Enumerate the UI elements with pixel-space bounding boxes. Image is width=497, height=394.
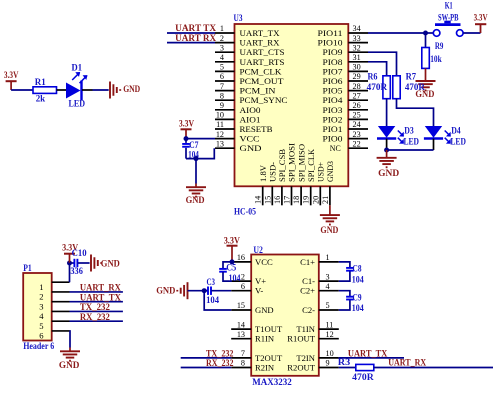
svg-text:GND3: GND3 bbox=[325, 161, 335, 182]
svg-text:4: 4 bbox=[39, 311, 44, 321]
svg-text:C7: C7 bbox=[189, 140, 199, 150]
svg-text:3: 3 bbox=[220, 43, 224, 52]
svg-text:15: 15 bbox=[263, 196, 272, 204]
svg-text:PIO4: PIO4 bbox=[323, 95, 344, 105]
svg-text:C3: C3 bbox=[207, 277, 216, 287]
svg-text:24: 24 bbox=[353, 120, 361, 129]
svg-text:GND: GND bbox=[255, 305, 274, 315]
svg-text:RX_232: RX_232 bbox=[206, 358, 234, 368]
svg-text:VCC: VCC bbox=[255, 257, 273, 267]
svg-text:K1: K1 bbox=[445, 1, 453, 11]
svg-text:12: 12 bbox=[216, 130, 224, 139]
svg-text:P1: P1 bbox=[23, 263, 32, 273]
svg-text:SPI_MOSI: SPI_MOSI bbox=[287, 143, 297, 182]
svg-text:PIO1: PIO1 bbox=[323, 124, 343, 134]
svg-text:470R: 470R bbox=[352, 372, 374, 382]
svg-text:PIO9: PIO9 bbox=[323, 47, 343, 57]
svg-text:VCC: VCC bbox=[240, 134, 260, 144]
svg-text:3.3V: 3.3V bbox=[179, 119, 195, 129]
svg-text:LED: LED bbox=[404, 136, 420, 146]
svg-text:25: 25 bbox=[353, 111, 361, 120]
svg-text:27: 27 bbox=[353, 91, 361, 100]
svg-text:11: 11 bbox=[326, 320, 334, 329]
svg-text:UART_RTS: UART_RTS bbox=[240, 57, 285, 67]
svg-text:13: 13 bbox=[237, 330, 245, 339]
svg-text:31: 31 bbox=[353, 53, 361, 62]
svg-text:2: 2 bbox=[241, 272, 245, 281]
svg-text:USD-: USD- bbox=[268, 162, 278, 182]
svg-text:GND: GND bbox=[156, 286, 176, 296]
svg-text:LED: LED bbox=[69, 99, 86, 109]
svg-text:UART_TX: UART_TX bbox=[80, 292, 121, 302]
svg-text:GND: GND bbox=[123, 84, 140, 94]
svg-text:1: 1 bbox=[326, 253, 330, 262]
svg-text:TX_232: TX_232 bbox=[80, 302, 110, 312]
svg-text:104: 104 bbox=[229, 273, 241, 283]
svg-text:C9: C9 bbox=[353, 292, 362, 302]
svg-text:C8: C8 bbox=[353, 264, 362, 274]
svg-text:GND: GND bbox=[186, 195, 205, 205]
svg-text:PIO6: PIO6 bbox=[323, 76, 344, 86]
svg-text:U2: U2 bbox=[253, 245, 263, 255]
svg-text:3.3V: 3.3V bbox=[224, 235, 241, 245]
svg-text:29: 29 bbox=[353, 72, 361, 81]
svg-text:21: 21 bbox=[321, 196, 330, 204]
svg-text:Header 6: Header 6 bbox=[23, 341, 54, 351]
svg-text:PIO11: PIO11 bbox=[318, 28, 343, 38]
svg-text:R1IN: R1IN bbox=[255, 334, 275, 344]
svg-text:C2+: C2+ bbox=[300, 286, 315, 296]
svg-text:33: 33 bbox=[353, 34, 361, 43]
svg-text:GND: GND bbox=[240, 143, 262, 153]
svg-text:336: 336 bbox=[70, 266, 83, 276]
svg-text:GND: GND bbox=[378, 168, 400, 178]
svg-text:U3: U3 bbox=[234, 13, 243, 23]
svg-text:PCM_IN: PCM_IN bbox=[240, 86, 277, 96]
svg-text:R1OUT: R1OUT bbox=[287, 334, 315, 344]
svg-text:V+: V+ bbox=[255, 276, 266, 286]
svg-text:PIO5: PIO5 bbox=[323, 86, 343, 96]
svg-text:470R: 470R bbox=[405, 82, 426, 92]
svg-text:34: 34 bbox=[353, 24, 361, 33]
svg-text:AIO0: AIO0 bbox=[240, 105, 261, 115]
svg-text:SPI_CLK: SPI_CLK bbox=[306, 148, 316, 182]
svg-text:UART TX: UART TX bbox=[175, 23, 217, 33]
svg-text:3: 3 bbox=[326, 272, 330, 281]
svg-text:17: 17 bbox=[283, 196, 292, 204]
svg-text:SPI_MISO: SPI_MISO bbox=[296, 144, 306, 182]
svg-text:C5: C5 bbox=[226, 263, 236, 273]
svg-text:8: 8 bbox=[220, 91, 224, 100]
svg-text:UART_RX: UART_RX bbox=[388, 358, 426, 368]
svg-text:PIO10: PIO10 bbox=[318, 38, 343, 48]
svg-text:T2IN: T2IN bbox=[296, 353, 315, 363]
svg-text:1.8V: 1.8V bbox=[258, 164, 268, 182]
svg-text:R2OUT: R2OUT bbox=[287, 363, 315, 373]
svg-text:GND: GND bbox=[59, 360, 80, 370]
svg-text:10: 10 bbox=[216, 111, 224, 120]
svg-text:V-: V- bbox=[255, 286, 263, 296]
svg-text:3: 3 bbox=[39, 301, 43, 311]
svg-text:PCM_OUT: PCM_OUT bbox=[240, 76, 285, 86]
svg-text:30: 30 bbox=[353, 63, 361, 72]
svg-text:PIO8: PIO8 bbox=[323, 57, 343, 67]
svg-text:14: 14 bbox=[237, 320, 245, 329]
svg-text:7: 7 bbox=[220, 82, 224, 91]
svg-text:3.3V: 3.3V bbox=[474, 12, 488, 22]
svg-text:C10: C10 bbox=[72, 248, 87, 258]
svg-text:SPI_CSB: SPI_CSB bbox=[277, 149, 287, 182]
svg-text:8: 8 bbox=[241, 359, 245, 368]
svg-text:T1IN: T1IN bbox=[296, 324, 315, 334]
svg-text:6: 6 bbox=[220, 72, 224, 81]
svg-text:10: 10 bbox=[326, 349, 334, 358]
svg-text:RX_232: RX_232 bbox=[80, 312, 110, 322]
svg-text:470R: 470R bbox=[367, 82, 388, 92]
svg-text:GND: GND bbox=[320, 225, 338, 235]
svg-text:PIO0: PIO0 bbox=[323, 134, 343, 144]
svg-text:1: 1 bbox=[39, 282, 43, 292]
svg-text:UART_TX: UART_TX bbox=[240, 28, 281, 38]
svg-text:20: 20 bbox=[311, 196, 320, 204]
svg-text:2k: 2k bbox=[36, 94, 46, 104]
svg-text:PCM_CLK: PCM_CLK bbox=[240, 66, 283, 76]
svg-text:UART_RX: UART_RX bbox=[240, 38, 281, 48]
svg-text:26: 26 bbox=[353, 101, 361, 110]
svg-text:PIO7: PIO7 bbox=[323, 66, 344, 76]
svg-text:R3: R3 bbox=[338, 357, 351, 367]
svg-text:12: 12 bbox=[326, 330, 334, 339]
svg-text:11: 11 bbox=[216, 120, 224, 129]
svg-text:15: 15 bbox=[237, 301, 245, 310]
svg-text:19: 19 bbox=[302, 196, 311, 204]
svg-text:16: 16 bbox=[273, 196, 282, 204]
svg-text:D4: D4 bbox=[451, 126, 461, 136]
svg-text:9: 9 bbox=[326, 359, 330, 368]
svg-text:28: 28 bbox=[353, 82, 361, 91]
svg-text:SW-PB: SW-PB bbox=[438, 12, 459, 22]
svg-text:PIO3: PIO3 bbox=[323, 105, 343, 115]
svg-text:TX_232: TX_232 bbox=[206, 348, 234, 358]
svg-text:23: 23 bbox=[353, 130, 361, 139]
svg-text:NC: NC bbox=[330, 143, 341, 153]
svg-text:UART_CTS: UART_CTS bbox=[240, 47, 285, 57]
svg-text:C1+: C1+ bbox=[300, 257, 315, 267]
svg-text:T2OUT: T2OUT bbox=[255, 353, 283, 363]
svg-text:18: 18 bbox=[292, 196, 301, 204]
svg-text:RESETB: RESETB bbox=[240, 124, 273, 134]
svg-text:5: 5 bbox=[326, 301, 330, 310]
svg-text:32: 32 bbox=[353, 43, 361, 52]
svg-text:R6: R6 bbox=[368, 72, 378, 82]
svg-text:22: 22 bbox=[353, 139, 361, 148]
svg-text:R9: R9 bbox=[435, 41, 444, 51]
svg-text:5: 5 bbox=[39, 321, 43, 331]
svg-text:R1: R1 bbox=[35, 77, 46, 87]
svg-text:LED: LED bbox=[450, 136, 466, 146]
svg-text:4: 4 bbox=[326, 282, 330, 291]
svg-text:1: 1 bbox=[220, 24, 224, 33]
svg-text:UART_TX: UART_TX bbox=[348, 348, 388, 358]
svg-text:MAX3232: MAX3232 bbox=[252, 377, 292, 387]
svg-text:AIO1: AIO1 bbox=[240, 114, 261, 124]
svg-text:2: 2 bbox=[220, 34, 224, 43]
svg-text:C1-: C1- bbox=[302, 276, 315, 286]
svg-text:2: 2 bbox=[39, 292, 43, 302]
svg-text:T1OUT: T1OUT bbox=[255, 324, 283, 334]
svg-text:6: 6 bbox=[39, 331, 44, 341]
svg-text:5: 5 bbox=[220, 63, 224, 72]
svg-text:D1: D1 bbox=[72, 63, 83, 73]
svg-text:GND: GND bbox=[101, 258, 120, 268]
svg-text:UART RX: UART RX bbox=[175, 33, 216, 43]
svg-text:PIO2: PIO2 bbox=[323, 114, 343, 124]
svg-text:104: 104 bbox=[352, 275, 364, 285]
svg-text:13: 13 bbox=[216, 139, 224, 148]
svg-text:7: 7 bbox=[241, 349, 245, 358]
svg-text:14: 14 bbox=[254, 196, 263, 204]
svg-text:PCM_SYNC: PCM_SYNC bbox=[240, 95, 288, 105]
svg-text:6: 6 bbox=[241, 282, 245, 291]
svg-text:C2-: C2- bbox=[302, 305, 315, 315]
svg-text:16: 16 bbox=[237, 253, 245, 262]
svg-text:D3: D3 bbox=[404, 126, 414, 136]
svg-text:3.3V: 3.3V bbox=[4, 70, 19, 80]
svg-text:104: 104 bbox=[352, 303, 364, 313]
svg-text:4: 4 bbox=[220, 53, 224, 62]
svg-text:10k: 10k bbox=[430, 54, 442, 64]
svg-text:R2IN: R2IN bbox=[255, 363, 275, 373]
svg-text:104: 104 bbox=[206, 295, 219, 305]
svg-text:R7: R7 bbox=[406, 72, 417, 82]
svg-text:HC-05: HC-05 bbox=[234, 207, 256, 217]
svg-text:UART_RX: UART_RX bbox=[80, 283, 121, 293]
svg-text:9: 9 bbox=[220, 101, 224, 110]
svg-text:USD+: USD+ bbox=[316, 162, 326, 182]
